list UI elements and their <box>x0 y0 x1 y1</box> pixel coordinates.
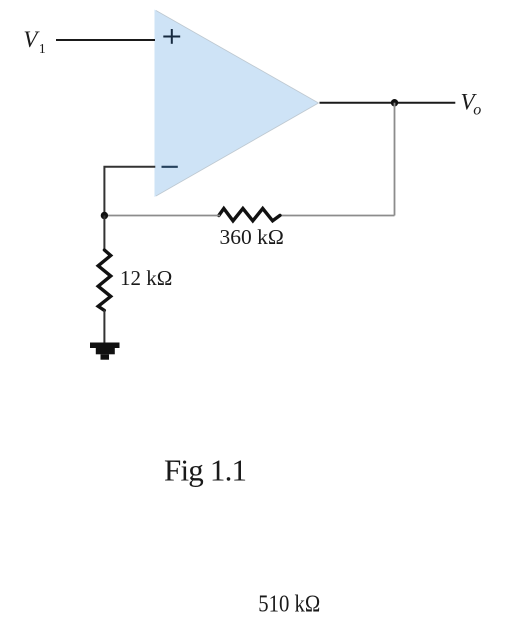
wire inverting input L-shape <box>104 167 155 216</box>
svg-text:1: 1 <box>39 42 46 57</box>
svg-text:12 kΩ: 12 kΩ <box>120 266 172 290</box>
wire feedback vertical (gray) <box>394 103 396 216</box>
op-amp plus sign <box>163 29 180 44</box>
resistor R1 12k zigzag <box>98 250 111 310</box>
svg-text:360 kΩ: 360 kΩ <box>220 225 284 249</box>
op-amp edge shading top <box>156 11 319 104</box>
node Vo label <box>461 89 482 118</box>
node V1 label <box>23 27 45 57</box>
op-amp U1 <box>155 10 319 198</box>
wire feedback right segment (gray) <box>279 215 395 217</box>
node feedback junction dot <box>101 212 108 219</box>
op-amp minus sign <box>162 166 178 168</box>
svg-text:o: o <box>473 102 481 119</box>
svg-text:Fig 1.1: Fig 1.1 <box>164 453 247 488</box>
resistor R2 360k zigzag <box>219 209 280 221</box>
node output junction dot <box>391 99 398 106</box>
wire resistor R1 to ground <box>103 310 105 343</box>
wire output <box>320 102 456 104</box>
ground symbol <box>90 343 120 360</box>
wire node to resistor R1 <box>103 216 105 251</box>
svg-text:510 kΩ: 510 kΩ <box>258 591 320 617</box>
wire feedback left segment (gray) <box>104 215 220 217</box>
op-amp edge shading bottom <box>156 103 319 196</box>
wire V1 to noninverting input <box>56 39 155 41</box>
